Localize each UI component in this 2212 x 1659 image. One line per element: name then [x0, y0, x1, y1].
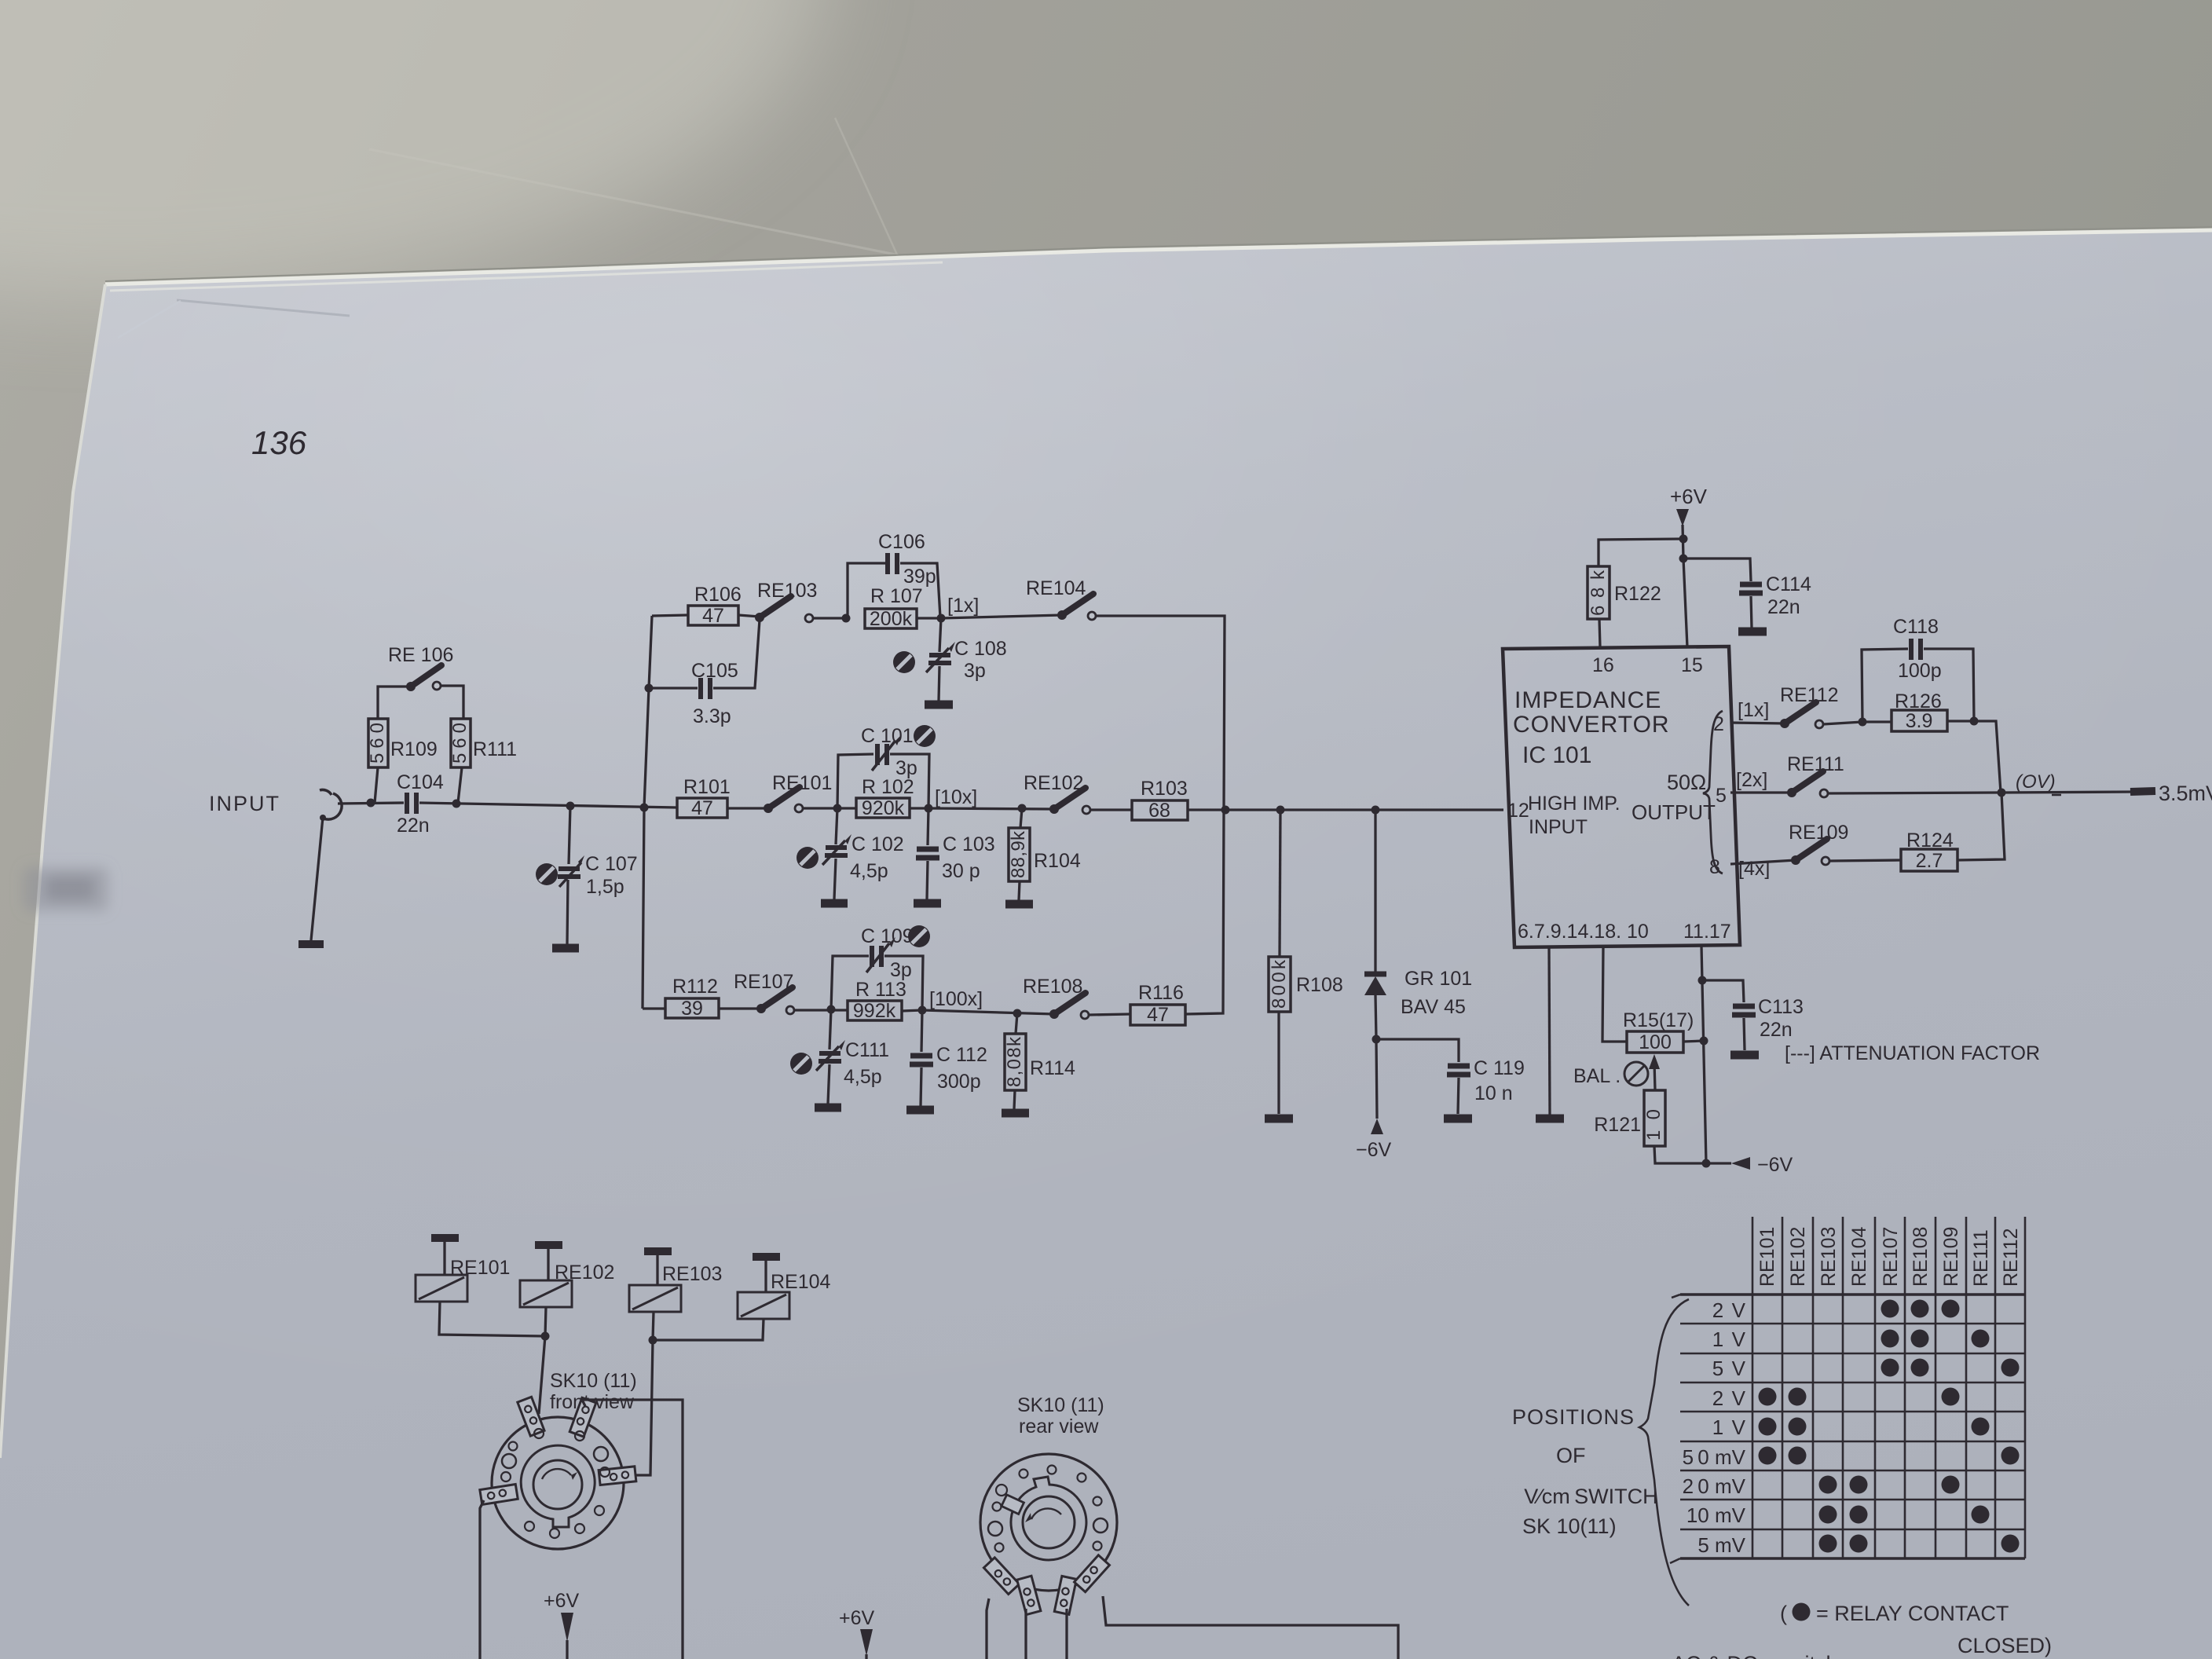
lug front right — [599, 1467, 636, 1485]
wire node to IC pin 12 — [1225, 808, 1503, 811]
op-amp U1 IC101 impedance convertor box — [1503, 646, 1740, 947]
capacitor C107 (variable, to ground) — [569, 806, 570, 864]
svg-text:68k: 68k — [1588, 569, 1609, 616]
svg-text:2.7: 2.7 — [1916, 850, 1943, 872]
svg-text:IC 101: IC 101 — [1522, 742, 1591, 768]
svg-text:(OV): (OV) — [2016, 771, 2056, 793]
svg-text:3.9: 3.9 — [1906, 710, 1933, 732]
node C118 left — [1859, 718, 1867, 727]
svg-text:560: 560 — [449, 723, 471, 764]
svg-text:C 112: C 112 — [936, 1044, 987, 1066]
relay contact RE102 — [1049, 804, 1059, 814]
svg-text:47: 47 — [1147, 1004, 1169, 1026]
svg-text:15: 15 — [1681, 654, 1703, 676]
relay contact RE107 — [756, 1004, 766, 1013]
node C106 left — [842, 614, 851, 623]
svg-text:C113: C113 — [1758, 996, 1804, 1018]
svg-text:30 p: 30 p — [942, 860, 980, 882]
svg-text:RE108: RE108 — [1023, 976, 1082, 998]
node output junction — [1998, 789, 2006, 797]
table dots row 10mV — [1819, 1506, 1990, 1524]
wire 10x node to RE102 — [928, 808, 1054, 809]
relay contact RE109 — [1791, 855, 1800, 865]
resistor R101 — [677, 798, 727, 818]
node R111 bottom — [452, 800, 461, 808]
wire rear lug2 down — [1024, 1609, 1027, 1659]
svg-text:R114: R114 — [1030, 1057, 1075, 1079]
svg-text:HIGH IMP.: HIGH IMP. — [1528, 793, 1621, 815]
node C118 right — [1970, 717, 1979, 726]
relay coil RE103 — [644, 1247, 672, 1255]
wire input to C104 — [338, 803, 404, 804]
svg-text:RE112: RE112 — [2000, 1228, 2022, 1287]
svg-text:BAL .: BAL . — [1573, 1065, 1621, 1087]
node attenuator out — [1221, 806, 1230, 815]
svg-text:2: 2 — [1713, 713, 1724, 735]
input connector J — [320, 789, 331, 795]
trimmer mark C111 — [790, 1053, 812, 1075]
wiper arrow R15 — [1654, 1062, 1655, 1090]
wire rear lug3 down — [1065, 1609, 1068, 1659]
trimmer mark C101 — [914, 725, 936, 747]
lug front A — [518, 1397, 544, 1436]
svg-text:+6V: +6V — [1670, 485, 1708, 508]
supply -6V IC — [1706, 1162, 1731, 1164]
svg-text:SK10 (11): SK10 (11) — [550, 1370, 637, 1392]
relay contact RE101 — [764, 804, 773, 813]
lug rear 3 — [1054, 1576, 1076, 1614]
svg-text:CONVERTOR: CONVERTOR — [1513, 712, 1670, 738]
svg-text:RE111: RE111 — [1970, 1229, 1992, 1287]
node R122 top — [1679, 535, 1688, 544]
svg-text:200k: 200k — [870, 608, 913, 630]
wire RE111 to output node — [1828, 793, 2001, 793]
node 10x — [925, 804, 933, 813]
svg-text:C114: C114 — [1766, 573, 1811, 595]
svg-text:RE104: RE104 — [1026, 577, 1086, 599]
ground R108 — [1265, 1115, 1293, 1123]
capacitor C108 (variable, to ground) — [939, 618, 941, 652]
wire RE104 to riser — [1096, 616, 1225, 810]
svg-text:C 109: C 109 — [861, 925, 914, 947]
node C107 top — [566, 802, 575, 811]
svg-text:136: 136 — [251, 424, 307, 461]
table dots row 20mV — [1819, 1476, 1960, 1494]
output terminal 3.5mV — [2130, 791, 2155, 792]
trimmer mark C108 — [893, 651, 915, 673]
resistor R121 — [1644, 1090, 1665, 1146]
lug rear 1 — [983, 1558, 1019, 1595]
svg-text:RE109: RE109 — [1789, 822, 1848, 844]
wire C104 to R101 — [419, 803, 677, 808]
table dots row 1V — [1881, 1330, 1990, 1348]
svg-text:22n: 22n — [397, 815, 430, 837]
node C119 — [1372, 1035, 1381, 1044]
svg-text:rear view: rear view — [1019, 1415, 1099, 1437]
table brace — [1639, 1299, 1689, 1606]
svg-text:C 108: C 108 — [954, 638, 1007, 660]
ground C111 — [815, 1104, 841, 1112]
ground C114 — [1738, 628, 1767, 636]
svg-text:R108: R108 — [1296, 974, 1343, 996]
node RE103/RE104 — [649, 1336, 657, 1345]
wire front lug B right-down — [582, 1400, 683, 1659]
svg-text:R 113: R 113 — [855, 979, 906, 1001]
trimmer mark C109 — [908, 925, 930, 947]
svg-text:AC & DC switch: AC & DC switch — [1672, 1652, 1838, 1659]
wire rear lug4 right — [1103, 1596, 1398, 1659]
svg-text:RE103: RE103 — [757, 580, 817, 602]
svg-text:16: 16 — [1592, 654, 1614, 676]
svg-text:[4x]: [4x] — [1738, 858, 1770, 880]
svg-text:C 101: C 101 — [861, 725, 914, 747]
svg-text:100: 100 — [1639, 1031, 1672, 1053]
svg-text:10 mV: 10 mV — [1686, 1503, 1746, 1527]
svg-text:C118: C118 — [1893, 616, 1939, 638]
node 100x — [918, 1006, 927, 1015]
svg-text:C105: C105 — [691, 660, 738, 682]
table dots row 2V lower — [1759, 1388, 1960, 1406]
table dots row 1V lower — [1759, 1418, 1990, 1436]
wire R109 leads — [378, 687, 411, 719]
capacitor C104 — [405, 793, 409, 814]
svg-text:8,08k: 8,08k — [1004, 1036, 1025, 1087]
svg-text:RE101: RE101 — [772, 772, 832, 794]
svg-text:BAV 45: BAV 45 — [1401, 996, 1466, 1018]
node GR101 top — [1372, 806, 1380, 815]
svg-text:22n: 22n — [1767, 596, 1800, 618]
wire riser to R112 — [643, 1007, 665, 1009]
capacitor C112 (to ground) — [921, 1010, 922, 1052]
svg-text:+6V: +6V — [544, 1590, 580, 1612]
svg-text:RE108: RE108 — [1910, 1227, 1932, 1287]
node -6V — [1702, 1159, 1711, 1168]
resistor R116 — [1130, 1005, 1185, 1025]
svg-text:47: 47 — [691, 797, 713, 819]
capacitor C105 — [649, 687, 698, 689]
table dots row 50mV — [1759, 1447, 2020, 1465]
lug rear 2 — [1017, 1576, 1041, 1614]
svg-text:[1x]: [1x] — [1738, 699, 1769, 721]
capacitor C101 (variable) — [837, 754, 873, 808]
wire R116 to riser — [1185, 810, 1224, 1014]
wire RE102 to R103 — [1090, 808, 1132, 811]
resistor R114 — [1016, 1013, 1017, 1034]
lug rear 4 — [1075, 1555, 1110, 1592]
svg-text:R124: R124 — [1906, 829, 1954, 851]
wire front left lug down — [480, 1500, 484, 1659]
table dots row 5mV — [1819, 1535, 2020, 1553]
svg-text:3.3p: 3.3p — [693, 705, 731, 727]
svg-text:CLOSED): CLOSED) — [1957, 1634, 2052, 1657]
svg-text:R111: R111 — [473, 738, 517, 760]
svg-text:RE112: RE112 — [1780, 684, 1839, 706]
svg-text:INPUT: INPUT — [1529, 816, 1588, 838]
svg-text:R 107: R 107 — [870, 585, 923, 607]
svg-text:RE102: RE102 — [1787, 1227, 1809, 1287]
capacitor C113 (to ground) — [1702, 980, 1744, 1002]
node R15 right — [1700, 1037, 1708, 1046]
svg-text:R15(17): R15(17) — [1623, 1009, 1694, 1031]
svg-text:R122: R122 — [1614, 583, 1661, 605]
capacitor C118 — [1862, 649, 1908, 722]
relay coil RE104 — [753, 1253, 780, 1261]
capacitor C106 — [848, 563, 885, 618]
capacitor C103 (to ground) — [928, 808, 928, 845]
relay contact RE103 — [755, 613, 764, 622]
relay coil RE101 — [431, 1234, 459, 1242]
svg-text:50Ω: 50Ω — [1667, 771, 1706, 794]
relay contact RE104 — [1057, 610, 1067, 620]
wire RE112 to C118 node — [1823, 722, 1862, 724]
svg-text:R103: R103 — [1141, 778, 1188, 800]
svg-text:88,9k: 88,9k — [1008, 830, 1029, 878]
relay table grid — [1670, 1217, 2025, 1563]
svg-text:RE102: RE102 — [555, 1262, 614, 1284]
svg-text:(: ( — [1780, 1602, 1787, 1625]
resistor R122 — [1599, 539, 1683, 566]
wire 100x node to RE108 — [922, 1010, 1054, 1014]
svg-text:39p: 39p — [903, 566, 936, 588]
svg-text:2 0 mV: 2 0 mV — [1683, 1474, 1746, 1498]
svg-text:−6V: −6V — [1757, 1154, 1793, 1176]
resistor R104 — [1020, 808, 1022, 828]
node C113 top — [1698, 976, 1707, 985]
ground C103 — [914, 899, 941, 908]
svg-text:RE104: RE104 — [771, 1271, 831, 1293]
svg-text:992k: 992k — [853, 1000, 896, 1022]
resistor R102 — [856, 798, 910, 818]
svg-text:+6V: +6V — [839, 1607, 875, 1629]
svg-text:2 V: 2 V — [1712, 1298, 1746, 1322]
wire R124 to output node — [1957, 793, 2005, 860]
svg-text:RE107: RE107 — [1880, 1227, 1902, 1287]
resistor R103 — [1132, 800, 1188, 820]
ground C112 — [906, 1106, 934, 1115]
table row labels — [1683, 1298, 1746, 1557]
svg-text:−6V: −6V — [1356, 1139, 1392, 1161]
wire R126 to output node — [1974, 721, 2001, 793]
svg-text:5 V: 5 V — [1712, 1357, 1746, 1380]
svg-text:[---] ATTENUATION FACTOR: [---] ATTENUATION FACTOR — [1785, 1042, 2040, 1064]
lug front B — [569, 1397, 596, 1437]
wire R121 to -6V rail — [1654, 1146, 1706, 1163]
svg-text:5: 5 — [1716, 785, 1727, 807]
relay contact RE111 — [1787, 788, 1796, 797]
svg-text:11.17: 11.17 — [1683, 921, 1731, 943]
svg-text:C 107: C 107 — [585, 853, 638, 875]
svg-text:5 0 mV: 5 0 mV — [1683, 1445, 1746, 1469]
trimmer mark C107 — [536, 863, 558, 885]
svg-text:920k: 920k — [862, 797, 905, 819]
svg-text:6.7.9.14.18. 10: 6.7.9.14.18. 10 — [1518, 921, 1649, 943]
svg-text:12: 12 — [1507, 800, 1529, 822]
node output 2x pin5 stub — [1730, 791, 1792, 793]
trimmer mark C102 — [797, 847, 819, 869]
svg-text:R104: R104 — [1034, 850, 1081, 872]
node riser top — [640, 804, 649, 812]
resistor R124 — [1901, 849, 1957, 871]
wire RE101 to C101 node — [803, 807, 856, 809]
svg-text:C 102: C 102 — [851, 833, 904, 855]
svg-text:R 102: R 102 — [862, 776, 914, 798]
svg-text:POSITIONS: POSITIONS — [1512, 1405, 1635, 1429]
svg-text:4,5p: 4,5p — [844, 1066, 882, 1088]
svg-text:R126: R126 — [1895, 690, 1942, 712]
svg-text:GR 101: GR 101 — [1404, 968, 1472, 990]
wire IC pin 11/17 down — [1701, 946, 1706, 1163]
svg-text:1 V: 1 V — [1712, 1328, 1746, 1351]
svg-text:SK10 (11): SK10 (11) — [1017, 1394, 1104, 1416]
svg-text:V⁄cm SWITCH: V⁄cm SWITCH — [1522, 1485, 1658, 1508]
resistor R126 — [1892, 710, 1947, 731]
capacitor C111 (variable, to ground) — [829, 1009, 831, 1049]
svg-text:68: 68 — [1148, 800, 1170, 822]
svg-text:RE107: RE107 — [734, 971, 793, 993]
output pins bracket — [1703, 711, 1723, 873]
svg-text:C 119: C 119 — [1474, 1057, 1525, 1079]
wire RE107 to C109 node — [794, 1009, 848, 1011]
svg-text:RE104: RE104 — [1848, 1226, 1870, 1287]
svg-text:IMPEDANCE: IMPEDANCE — [1514, 687, 1661, 713]
resistor R113 — [848, 1001, 902, 1020]
svg-text:[100x]: [100x] — [929, 988, 983, 1010]
wire RE coils to SK10 front — [539, 1336, 545, 1414]
svg-text:300p: 300p — [937, 1071, 981, 1093]
wire rear lug1 down — [987, 1599, 989, 1659]
svg-text:3p: 3p — [890, 959, 912, 981]
svg-text:5 mV: 5 mV — [1697, 1533, 1745, 1557]
svg-text:R112: R112 — [672, 976, 718, 998]
ground R114 — [1002, 1109, 1029, 1118]
diode GR101 BAV45 — [1374, 810, 1376, 972]
node input junction — [367, 799, 375, 808]
svg-text:47: 47 — [702, 605, 724, 627]
svg-text:C106: C106 — [878, 531, 925, 553]
svg-text:RE102: RE102 — [1024, 772, 1083, 794]
svg-text:RE111: RE111 — [1787, 753, 1844, 775]
svg-text:[1x]: [1x] — [947, 595, 979, 617]
node output 4x pin8 stub — [1730, 860, 1796, 864]
ground C108 — [925, 701, 953, 709]
node output 1x pin2 stub — [1730, 723, 1785, 723]
svg-text:OF: OF — [1556, 1444, 1586, 1467]
svg-text:INPUT: INPUT — [209, 792, 280, 815]
capacitor C119 (to ground) — [1376, 1039, 1459, 1062]
supply -6V GR101 — [1376, 1039, 1377, 1119]
svg-text:3.5mV: 3.5mV — [2159, 782, 2212, 805]
wire RE109 to R124 — [1829, 860, 1901, 861]
resistor R106 — [652, 615, 688, 616]
svg-text:10 n: 10 n — [1474, 1082, 1513, 1104]
lug front left — [480, 1484, 518, 1504]
svg-text:RE101: RE101 — [450, 1257, 510, 1279]
node 1x — [937, 614, 946, 623]
capacitor C109 (variable) — [831, 956, 869, 1009]
svg-text:RE101: RE101 — [1756, 1227, 1778, 1287]
wire RE103 to node — [813, 617, 846, 619]
svg-text:1,5p: 1,5p — [586, 876, 624, 898]
svg-text:R101: R101 — [683, 776, 731, 798]
ground C107 — [552, 944, 579, 953]
node C101 left — [833, 804, 842, 813]
svg-text:= RELAY CONTACT: = RELAY CONTACT — [1816, 1602, 2009, 1625]
svg-text:4,5p: 4,5p — [850, 860, 888, 882]
wire 1x node to RE104 — [941, 615, 1062, 618]
relay coil RE102 — [535, 1241, 562, 1249]
resistor R107 — [865, 609, 917, 628]
ground C102 — [821, 899, 848, 908]
svg-text:39: 39 — [681, 998, 703, 1020]
capacitor C102 (variable, to ground) — [836, 808, 837, 844]
node C114 top — [1679, 555, 1688, 563]
svg-text:[10x]: [10x] — [935, 786, 977, 808]
svg-text:3p: 3p — [964, 660, 986, 682]
collar ring with tabs — [1011, 1477, 1086, 1560]
wire +6V to pin15 — [1683, 558, 1687, 647]
svg-text:C 103: C 103 — [943, 833, 995, 855]
svg-text:RE103: RE103 — [662, 1263, 722, 1285]
relay contact RE112 — [1780, 719, 1789, 728]
svg-text:OUTPUT: OUTPUT — [1632, 800, 1716, 824]
svg-text:[2x]: [2x] — [1736, 769, 1767, 791]
resistor R108 — [1280, 810, 1280, 957]
node RE101/RE102 — [541, 1332, 550, 1341]
node R114 top — [1013, 1009, 1022, 1018]
ground IC — [1536, 1115, 1564, 1123]
ground R104 — [1005, 900, 1033, 909]
svg-text:R121: R121 — [1594, 1114, 1641, 1136]
svg-text:C111: C111 — [845, 1039, 889, 1061]
svg-text:SK 10(11): SK 10(11) — [1522, 1514, 1617, 1538]
svg-text:R106: R106 — [694, 584, 742, 606]
svg-text:2 V: 2 V — [1712, 1386, 1746, 1410]
wire IC pin 6.7.9.14.18 to ground — [1549, 947, 1550, 1115]
svg-text:RE103: RE103 — [1818, 1227, 1840, 1287]
svg-text:1 V: 1 V — [1712, 1415, 1746, 1439]
resistor R111 — [451, 719, 471, 767]
svg-text:C104: C104 — [397, 771, 444, 793]
table dots row 5V — [1881, 1359, 2020, 1377]
table dots row 2V — [1881, 1300, 1960, 1318]
relay contact RE106 — [406, 682, 416, 691]
potentiometer R15(17) — [1627, 1031, 1683, 1053]
node R104 top — [1018, 804, 1027, 813]
node 0V wire to output — [2001, 792, 2135, 793]
resistor R109 — [368, 719, 388, 767]
ground input — [311, 817, 323, 940]
wire RE108 to R116 — [1089, 1014, 1130, 1015]
wire R111 leads — [441, 686, 463, 719]
relay contact RE108 — [1049, 1009, 1059, 1019]
wire riser to attenuator branches — [643, 616, 652, 1009]
ground C113 — [1730, 1051, 1759, 1060]
svg-text:100p: 100p — [1898, 660, 1942, 682]
capacitor C114 (to ground) — [1683, 558, 1751, 581]
wire IC pin 10 to R15 — [1602, 947, 1627, 1042]
ground C119 — [1444, 1115, 1472, 1123]
svg-text:RE109: RE109 — [1940, 1227, 1962, 1287]
node R108 top — [1276, 806, 1285, 815]
svg-text:560: 560 — [367, 723, 388, 764]
resistor R112 — [665, 998, 719, 1018]
svg-text:22n: 22n — [1760, 1019, 1793, 1041]
svg-text:R116: R116 — [1138, 982, 1184, 1004]
svg-text:R109: R109 — [390, 738, 438, 760]
node C109 left — [827, 1005, 836, 1014]
svg-text:RE 106: RE 106 — [388, 644, 453, 666]
